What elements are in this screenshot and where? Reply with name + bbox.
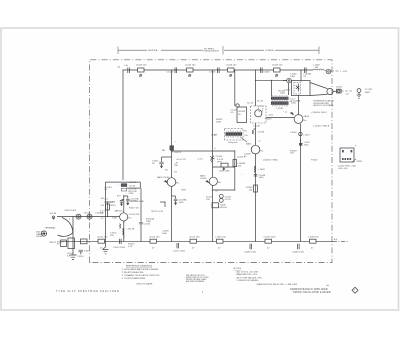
- svg-text:L1016 100: L1016 100: [149, 236, 160, 238]
- svg-text:1 R: 1 R: [174, 172, 178, 174]
- svg-text:J1013: J1013: [84, 212, 91, 214]
- svg-text:+105 -150: +105 -150: [338, 168, 349, 170]
- svg-text:R1017 2K: R1017 2K: [129, 208, 139, 210]
- svg-text:1M: 1M: [101, 198, 104, 200]
- svg-text:INPUT: INPUT: [49, 242, 56, 244]
- svg-text:PWR: PWR: [357, 161, 363, 163]
- svg-text:SEVEN A: SEVEN A: [148, 49, 158, 52]
- svg-text:6AK5 V1024: 6AK5 V1024: [157, 176, 170, 179]
- svg-text:C1016 250: C1016 250: [129, 214, 140, 216]
- svg-text:LOWER FOR SERIES: LOWER FOR SERIES: [237, 280, 259, 282]
- svg-text:L1010: L1010: [304, 134, 311, 136]
- svg-text:③ TUNABLE OSCILLATOR CIRCUITS: ③ TUNABLE OSCILLATOR CIRCUITS: [122, 274, 160, 277]
- svg-text:L1045 100: L1045 100: [226, 65, 237, 67]
- svg-text:NOTES: NOTES: [234, 268, 242, 270]
- svg-text:SC: SC: [244, 130, 247, 132]
- svg-text:J1050: J1050: [336, 87, 343, 89]
- svg-text:L1044 100: L1044 100: [185, 65, 196, 67]
- svg-text:NE: NE: [162, 150, 166, 152]
- svg-text:② RF ATTENUATORS: ② RF ATTENUATORS: [122, 271, 144, 274]
- svg-text:ADJUST & DETAILS: ADJUST & DETAILS: [314, 104, 335, 107]
- svg-text:C1049 100: C1049 100: [308, 236, 319, 238]
- svg-text:TIMING OSCILLATOR & MIXER: TIMING OSCILLATOR & MIXER: [293, 291, 331, 294]
- svg-text:CLIMB A: CLIMB A: [265, 49, 274, 52]
- svg-text:220K: 220K: [146, 221, 152, 223]
- svg-text:470K: 470K: [129, 193, 135, 195]
- svg-text:SC 45: SC 45: [247, 102, 254, 104]
- svg-text:L1016: L1016: [129, 185, 136, 187]
- svg-text:SIG IN: SIG IN: [50, 213, 57, 215]
- svg-text:INSTALLATION: INSTALLATION: [204, 50, 220, 53]
- svg-text:4M 100: 4M 100: [220, 207, 228, 209]
- svg-text:+160: +160: [268, 114, 274, 116]
- svg-text:PF A: PF A: [217, 161, 222, 164]
- svg-text:L1043 100: L1043 100: [136, 65, 147, 67]
- svg-text:C1013 1000: C1013 1000: [64, 210, 77, 212]
- svg-text:C1017 1000: C1017 1000: [173, 251, 186, 253]
- svg-text:P1062: P1062: [311, 159, 318, 161]
- svg-text:T 1047 R: T 1047 R: [172, 152, 181, 154]
- svg-text:T-1045: T-1045: [276, 108, 284, 110]
- svg-text:100K: 100K: [216, 121, 222, 123]
- svg-text:Q: Q: [285, 112, 287, 114]
- svg-text:SC 45: SC 45: [257, 101, 264, 103]
- svg-text:1M: 1M: [175, 165, 178, 167]
- svg-text:R1045: R1045: [265, 119, 272, 121]
- svg-text:Delay line: Delay line: [228, 142, 238, 144]
- svg-text:9 R: 9 R: [101, 205, 105, 207]
- svg-text:1000: 1000: [112, 217, 118, 219]
- svg-text:1000: 1000: [84, 251, 90, 253]
- svg-text:6AK5(?): 6AK5(?): [115, 210, 123, 213]
- svg-text:C1045: C1045: [209, 72, 216, 74]
- svg-text:4.7K: 4.7K: [128, 246, 133, 248]
- svg-text:+225: +225: [342, 71, 348, 73]
- svg-text:+C1016: +C1016: [129, 182, 138, 184]
- svg-text:VERT: VERT: [365, 92, 371, 94]
- svg-text:R1014: R1014: [109, 205, 116, 207]
- svg-text:C1047 1000: C1047 1000: [264, 236, 277, 238]
- svg-text:TYPE 3L10 SPECTRUM ANALYZER: TYPE 3L10 SPECTRUM ANALYZER: [56, 290, 120, 293]
- svg-text:1M: 1M: [112, 201, 115, 203]
- svg-text:1000: 1000: [291, 103, 297, 105]
- svg-text:4.5-25: 4.5-25: [225, 199, 232, 201]
- svg-text:1000: 1000: [290, 76, 296, 78]
- svg-text:① WIDE BAND AMPLIFIER & MIXER: ① WIDE BAND AMPLIFIER & MIXER: [122, 268, 159, 271]
- svg-text:L1046 100: L1046 100: [272, 65, 283, 67]
- svg-text:(J1049-5 DISC): (J1049-5 DISC): [312, 112, 327, 114]
- svg-text:V1034: V1034: [200, 178, 207, 180]
- svg-text:LEVEL: LEVEL: [36, 236, 44, 238]
- svg-text:+R 4.7-25: +R 4.7-25: [176, 159, 186, 161]
- svg-text:+300V: +300V: [284, 90, 291, 92]
- svg-text:TERMINAL: TERMINAL: [45, 227, 57, 230]
- svg-text:6AQ5: 6AQ5: [304, 115, 310, 118]
- svg-text:L1014 100: L1014 100: [97, 236, 108, 238]
- svg-text:+C10: +C10: [197, 159, 203, 161]
- svg-text:④ OUTPUT AMPLIFIER: ④ OUTPUT AMPLIFIER: [122, 277, 146, 280]
- svg-text:1000: 1000: [304, 145, 310, 147]
- svg-text:C1015A: C1015A: [95, 212, 103, 215]
- svg-text:1000: 1000: [259, 177, 265, 179]
- svg-text:1039 100K: 1039 100K: [219, 171, 230, 173]
- svg-text:15K: 15K: [249, 189, 253, 191]
- svg-text:1000: 1000: [162, 233, 168, 235]
- svg-text:C1048 1000: C1048 1000: [244, 251, 257, 253]
- svg-text:2000: 2000: [280, 93, 286, 95]
- svg-text:C1048 1000: C1048 1000: [292, 251, 305, 253]
- svg-text:R1043: R1043: [239, 111, 246, 113]
- svg-text:C1044: C1044: [167, 72, 174, 74]
- svg-text:+C: +C: [258, 141, 261, 143]
- svg-text:6AK6: 6AK6: [246, 143, 252, 146]
- svg-text:C1046: C1046: [263, 72, 270, 74]
- svg-text:1000: 1000: [179, 202, 185, 204]
- svg-text:L1042 100: L1042 100: [216, 236, 227, 238]
- svg-text:CIRCUIT DIAGR: CIRCUIT DIAGR: [136, 283, 153, 286]
- svg-text:T-1043: T-1043: [253, 125, 261, 127]
- svg-text:R1017 4.7K: R1017 4.7K: [152, 211, 164, 213]
- svg-text:J-1049-7 GND A: J-1049-7 GND A: [313, 125, 330, 128]
- svg-text:L1046: L1046: [258, 131, 265, 133]
- svg-text:+BANDSWITCH SELECTED + LINE 19: +BANDSWITCH SELECTED + LINE 1966: [256, 283, 298, 286]
- svg-text:L1048: L1048: [259, 169, 266, 171]
- svg-text:(J1049-7 GND): (J1049-7 GND): [263, 159, 278, 161]
- svg-text:15K: 15K: [290, 153, 294, 155]
- svg-text:L1017A: L1017A: [129, 199, 137, 202]
- svg-text:R1B: R1B: [182, 189, 187, 191]
- svg-text:AND PART NUMBERS: AND PART NUMBERS: [186, 280, 205, 283]
- svg-text:C1049: C1049: [290, 132, 297, 134]
- svg-text:C1015 1000: C1015 1000: [113, 247, 126, 249]
- svg-text:C1014: C1014: [77, 256, 84, 258]
- svg-text:REFERENCE DRAWINGS: REFERENCE DRAWINGS: [126, 265, 153, 268]
- svg-text:L1017 100: L1017 100: [189, 236, 200, 238]
- svg-text:L1017A: L1017A: [127, 228, 135, 231]
- svg-text:C1038: C1038: [216, 156, 223, 158]
- svg-text:BANDSWITCH +VOL: BANDSWITCH +VOL: [237, 273, 259, 276]
- svg-text:C1036: C1036: [144, 223, 151, 225]
- svg-text:L A: L A: [125, 64, 129, 67]
